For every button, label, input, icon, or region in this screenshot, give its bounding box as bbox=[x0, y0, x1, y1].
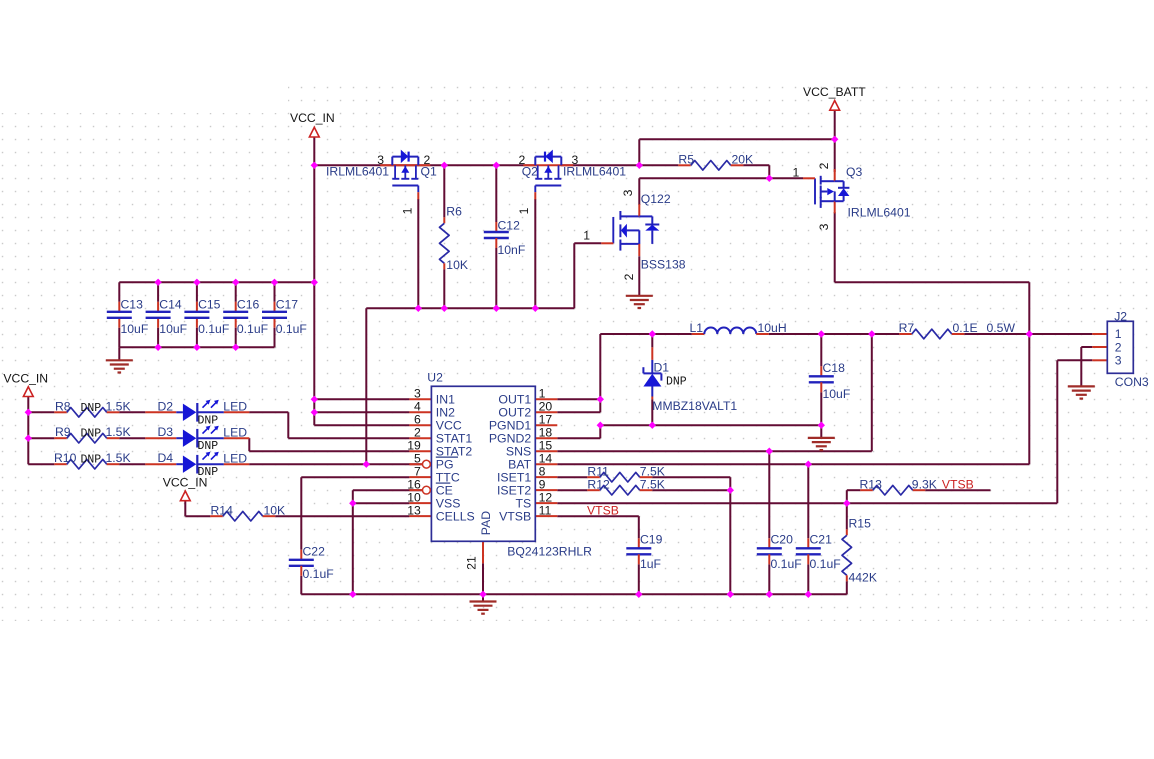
ground Q122 bbox=[626, 296, 653, 308]
junction bbox=[493, 305, 500, 312]
power VCC_IN lower bbox=[163, 476, 208, 501]
wire ISET drop bbox=[729, 477, 731, 594]
svg-text:J2: J2 bbox=[1114, 309, 1127, 323]
power VCC_IN left bbox=[3, 371, 48, 396]
junction bbox=[493, 162, 500, 169]
wire R13 vertical bbox=[846, 490, 848, 529]
wire D3 corner down bbox=[248, 438, 250, 451]
inductor L1 10uH bbox=[692, 328, 769, 335]
svg-text:D4: D4 bbox=[158, 451, 174, 465]
svg-text:9.3K: 9.3K bbox=[912, 477, 937, 491]
R9 labels bbox=[55, 425, 131, 441]
svg-text:ISET1: ISET1 bbox=[497, 471, 531, 485]
junction bbox=[597, 396, 604, 403]
wire C14 top bbox=[157, 282, 159, 302]
wire D1 bottom bbox=[651, 399, 653, 425]
wire Q122 gate horizontal bbox=[574, 242, 601, 244]
capacitor C16 bbox=[223, 297, 268, 336]
wire R10 row left bbox=[28, 463, 54, 465]
wire VCC_IN left rail bbox=[27, 397, 29, 465]
D2 labels bbox=[158, 399, 248, 427]
svg-text:R12: R12 bbox=[587, 477, 610, 491]
svg-text:R5: R5 bbox=[678, 153, 694, 167]
wire L1 to R7 bbox=[769, 333, 900, 335]
svg-text:11: 11 bbox=[539, 504, 552, 518]
svg-text:Q122: Q122 bbox=[641, 192, 671, 206]
wire Q3 source to J2 riser bbox=[835, 281, 1030, 283]
capacitor C13 bbox=[107, 297, 148, 336]
svg-text:ISET2: ISET2 bbox=[497, 484, 531, 498]
J2 pin stubs bbox=[1092, 334, 1107, 360]
resistor R13 bbox=[860, 485, 925, 495]
wire R5 left segment bbox=[639, 164, 678, 166]
svg-text:2: 2 bbox=[1115, 340, 1122, 354]
D1 labels bbox=[652, 361, 737, 413]
svg-text:3: 3 bbox=[572, 153, 579, 167]
junction bbox=[311, 396, 318, 403]
U2 pin numbers left bbox=[407, 387, 421, 518]
wire C13 bottom bbox=[118, 328, 120, 348]
svg-text:13: 13 bbox=[407, 504, 421, 518]
wire C18 ground stem bbox=[820, 425, 822, 438]
wire IN1 bbox=[314, 398, 409, 400]
ground J2 bbox=[1068, 386, 1095, 398]
wire R6 bottom bbox=[443, 269, 445, 308]
junction bbox=[441, 162, 448, 169]
resistor R8 bbox=[54, 408, 119, 418]
wire IN2 bbox=[314, 411, 409, 413]
junction bbox=[649, 330, 656, 337]
resistor R12 bbox=[587, 485, 652, 495]
svg-text:1.5K: 1.5K bbox=[106, 399, 131, 413]
wire TS bbox=[557, 502, 1057, 504]
svg-text:0.1uF: 0.1uF bbox=[810, 557, 841, 571]
svg-text:VSS: VSS bbox=[436, 497, 461, 511]
wire C17 top bbox=[274, 282, 276, 302]
svg-text:VCC: VCC bbox=[436, 419, 462, 433]
junction bbox=[193, 344, 200, 351]
junction bbox=[727, 591, 734, 598]
wire SNS riser bbox=[871, 334, 873, 451]
U2 pin numbers right bbox=[539, 387, 553, 518]
junction bbox=[766, 448, 773, 455]
wire R6 top bbox=[443, 165, 445, 217]
R13 labels bbox=[860, 477, 937, 491]
wire ISET2 left bbox=[557, 489, 587, 491]
wire L1 row left bbox=[600, 333, 692, 335]
U2 PG pin bubble pin 5 bbox=[423, 460, 431, 468]
svg-text:1: 1 bbox=[1115, 327, 1122, 341]
junction bbox=[363, 461, 370, 468]
svg-text:12: 12 bbox=[539, 491, 553, 505]
wire D2 corner down bbox=[287, 412, 289, 438]
wire VCC_BATT down to Q3 drain bbox=[834, 110, 836, 172]
resistor R11 bbox=[587, 472, 652, 482]
wire C13 top bbox=[118, 282, 120, 302]
svg-text:442K: 442K bbox=[849, 571, 877, 585]
capacitor C20 bbox=[757, 532, 802, 571]
U2 pin names right bbox=[489, 393, 532, 524]
junction bbox=[636, 162, 643, 169]
resistor R14 bbox=[210, 511, 275, 521]
svg-text:3: 3 bbox=[621, 189, 635, 196]
L1 labels bbox=[689, 321, 786, 335]
Q3 labels bbox=[793, 162, 911, 230]
capacitor C12 bbox=[484, 219, 525, 258]
svg-text:C16: C16 bbox=[237, 297, 260, 311]
svg-text:PGND2: PGND2 bbox=[489, 432, 532, 446]
svg-text:OUT1: OUT1 bbox=[498, 393, 531, 407]
wire gate bus bbox=[366, 307, 574, 309]
svg-text:3: 3 bbox=[817, 223, 831, 230]
wire pad ground stem bbox=[482, 594, 484, 601]
junction bbox=[271, 279, 278, 286]
capacitor C22 bbox=[289, 544, 334, 581]
wire J2 pin2 horizontal bbox=[1081, 346, 1092, 348]
svg-text:PGND1: PGND1 bbox=[489, 419, 532, 433]
svg-text:10uF: 10uF bbox=[823, 387, 851, 401]
wire J2 riser down bbox=[1028, 282, 1030, 334]
svg-text:19: 19 bbox=[407, 439, 421, 453]
junction bbox=[311, 279, 318, 286]
transistor Q3 IRLML6401 bbox=[25, 136, 1149, 598]
wire Q3 source down bbox=[834, 212, 836, 282]
wire ISET2 right bbox=[652, 489, 730, 491]
svg-text:10uH: 10uH bbox=[758, 321, 787, 335]
svg-text:Q3: Q3 bbox=[846, 165, 862, 179]
wire R9 to D3 bbox=[119, 437, 145, 439]
svg-text:DNP: DNP bbox=[81, 454, 102, 467]
R7 labels bbox=[899, 321, 1016, 335]
wire C16 bottom bbox=[235, 328, 237, 348]
R8 labels bbox=[55, 399, 131, 415]
U2 pin stubs right bbox=[535, 399, 557, 516]
wire PGND2 bbox=[557, 437, 600, 439]
resistor R10 bbox=[54, 459, 119, 469]
junction bbox=[415, 305, 422, 312]
wire R14 from VCC_IN bbox=[184, 501, 186, 517]
svg-text:C19: C19 bbox=[640, 532, 663, 546]
svg-text:C21: C21 bbox=[810, 532, 833, 546]
capacitor C14 bbox=[146, 297, 187, 336]
svg-text:C18: C18 bbox=[823, 361, 846, 375]
svg-text:MMBZ18VALT1: MMBZ18VALT1 bbox=[652, 399, 737, 413]
wire Q1 Q2 drain row bbox=[314, 164, 535, 166]
svg-text:R6: R6 bbox=[446, 204, 462, 218]
R12 labels bbox=[587, 477, 664, 491]
svg-text:10K: 10K bbox=[446, 258, 468, 272]
wire TTC bbox=[301, 476, 409, 478]
U2 CE pin bubble pin 16 bbox=[423, 486, 431, 494]
diode D2 LED bbox=[145, 400, 249, 422]
wire R10 to D4 bbox=[119, 463, 145, 465]
junction bbox=[843, 500, 850, 507]
svg-text:D2: D2 bbox=[158, 399, 174, 413]
svg-text:20K: 20K bbox=[732, 153, 754, 167]
svg-text:0.1uF: 0.1uF bbox=[237, 322, 268, 336]
wire pad drop bbox=[482, 563, 484, 594]
wire BAT riser bbox=[1028, 334, 1030, 464]
svg-text:VCC_IN: VCC_IN bbox=[3, 371, 48, 385]
svg-text:8: 8 bbox=[539, 465, 546, 479]
svg-text:5: 5 bbox=[414, 452, 421, 466]
wire R13 left bbox=[847, 489, 861, 491]
svg-text:3: 3 bbox=[377, 153, 384, 167]
power VCC_IN top bbox=[290, 111, 335, 137]
svg-text:1.5K: 1.5K bbox=[106, 451, 131, 465]
wire C18 top bbox=[820, 334, 822, 366]
junction bbox=[311, 162, 318, 169]
svg-text:VTSB: VTSB bbox=[499, 510, 531, 524]
junction bbox=[818, 330, 825, 337]
svg-text:0.1uF: 0.1uF bbox=[771, 557, 802, 571]
svg-text:VCC_IN: VCC_IN bbox=[290, 111, 335, 125]
wire CE drop bbox=[352, 490, 354, 594]
wire C21 bottom bbox=[807, 564, 809, 594]
junction bbox=[479, 591, 486, 598]
wire STAT1 from D2 bbox=[288, 437, 409, 439]
svg-text:CELLS: CELLS bbox=[436, 510, 475, 524]
wire C20 top bbox=[768, 451, 770, 538]
svg-text:10nF: 10nF bbox=[498, 243, 526, 257]
wire R8 to D2 bbox=[119, 411, 145, 413]
wire VTSB pin11 bbox=[557, 515, 639, 517]
svg-text:DNP: DNP bbox=[81, 428, 102, 441]
op-amp U2 body BQ24123RHLR bbox=[431, 386, 535, 541]
junction bbox=[154, 279, 161, 286]
svg-text:17: 17 bbox=[539, 413, 553, 427]
svg-text:3: 3 bbox=[414, 387, 421, 401]
junction bbox=[193, 279, 200, 286]
wire D4 to PG bbox=[249, 463, 423, 465]
svg-text:DNP: DNP bbox=[198, 414, 219, 427]
svg-text:6: 6 bbox=[414, 413, 421, 427]
transistor Q2 IRLML6401 bbox=[523, 150, 573, 200]
wire C14 bottom bbox=[157, 328, 159, 348]
wire SNS bbox=[557, 450, 872, 452]
svg-text:2: 2 bbox=[817, 162, 831, 169]
svg-text:7.5K: 7.5K bbox=[640, 464, 665, 478]
wire R13 net label tail bbox=[925, 489, 990, 491]
svg-text:R7: R7 bbox=[899, 321, 915, 335]
svg-text:2: 2 bbox=[519, 153, 526, 167]
D3 labels bbox=[158, 425, 248, 453]
junction bbox=[649, 422, 656, 429]
svg-text:4: 4 bbox=[414, 400, 421, 414]
diode D3 LED bbox=[145, 426, 249, 448]
wire ISET1 left bbox=[557, 476, 587, 478]
R11 labels bbox=[587, 464, 664, 478]
junction bbox=[766, 175, 773, 182]
U2 pin names left bbox=[436, 393, 475, 524]
junction bbox=[818, 422, 825, 429]
svg-text:PAD: PAD bbox=[479, 511, 493, 535]
resistor R15 bbox=[842, 529, 852, 581]
ground cap bank bbox=[106, 360, 133, 372]
wire R9 row left bbox=[28, 437, 54, 439]
svg-text:15: 15 bbox=[539, 439, 553, 453]
svg-text:0.5W: 0.5W bbox=[987, 321, 1016, 335]
resistor R5 bbox=[678, 161, 743, 171]
capacitor C19 bbox=[626, 532, 662, 571]
svg-text:1: 1 bbox=[793, 165, 800, 179]
svg-text:TS: TS bbox=[515, 497, 531, 511]
svg-text:C14: C14 bbox=[159, 297, 182, 311]
wire cap bank ground stem bbox=[118, 347, 120, 360]
wire STAT2 from D3 bbox=[249, 450, 409, 452]
svg-text:R9: R9 bbox=[55, 425, 71, 439]
wire R14 left bbox=[185, 515, 210, 517]
junction bbox=[441, 305, 448, 312]
svg-text:LED: LED bbox=[223, 425, 247, 439]
wire R5 drop to gate row bbox=[768, 165, 770, 178]
Q1 labels bbox=[326, 153, 437, 215]
svg-text:21: 21 bbox=[464, 556, 478, 570]
wire C19 bottom bbox=[638, 564, 640, 594]
svg-text:VTSB: VTSB bbox=[942, 477, 974, 491]
resistor R7 bbox=[899, 329, 964, 339]
wire VCC bbox=[314, 424, 409, 426]
diode D1 zener MMBZ18VALT1 bbox=[643, 347, 661, 399]
svg-text:PG: PG bbox=[436, 458, 454, 472]
connector J2 CON3 bbox=[1107, 309, 1149, 389]
svg-text:20: 20 bbox=[539, 400, 553, 414]
svg-text:IN1: IN1 bbox=[436, 393, 455, 407]
wire C19 top bbox=[638, 516, 640, 538]
svg-text:2: 2 bbox=[414, 426, 421, 440]
wire cap bank bottom bus bbox=[119, 346, 274, 348]
power VCC_BATT bbox=[803, 85, 866, 110]
svg-text:1: 1 bbox=[401, 207, 415, 214]
junction bbox=[805, 461, 812, 468]
junction bbox=[232, 279, 239, 286]
svg-text:IN2: IN2 bbox=[436, 406, 455, 420]
wire OUT riser bbox=[599, 334, 601, 412]
svg-text:1: 1 bbox=[539, 387, 546, 401]
svg-text:10uF: 10uF bbox=[159, 322, 187, 336]
svg-text:SNS: SNS bbox=[506, 445, 531, 459]
svg-text:CON3: CON3 bbox=[1115, 375, 1149, 389]
svg-text:1.5K: 1.5K bbox=[106, 425, 131, 439]
transistor Q1 IRLML6401 bbox=[380, 150, 430, 200]
junction bbox=[349, 500, 356, 507]
wire Q122 gate riser bbox=[573, 243, 575, 308]
svg-text:R15: R15 bbox=[849, 516, 872, 530]
wire C21 top bbox=[807, 464, 809, 538]
svg-text:2: 2 bbox=[424, 153, 431, 167]
wire cap bank top bus bbox=[119, 281, 314, 283]
svg-text:CE: CE bbox=[436, 484, 453, 498]
wire C20 bottom bbox=[768, 564, 770, 594]
svg-text:1: 1 bbox=[517, 207, 531, 214]
ground C18 bbox=[808, 438, 835, 450]
wire R5 right segment bbox=[743, 164, 769, 166]
svg-text:OUT2: OUT2 bbox=[498, 406, 531, 420]
Q122 labels bbox=[583, 189, 686, 280]
wire CE bbox=[353, 489, 423, 491]
svg-text:LED: LED bbox=[223, 400, 247, 414]
svg-text:C20: C20 bbox=[771, 532, 794, 546]
wire VCC_IN to Q1 row bbox=[313, 137, 315, 166]
svg-text:DNP: DNP bbox=[81, 402, 102, 415]
svg-text:DNP: DNP bbox=[666, 376, 687, 389]
R14 labels bbox=[211, 504, 286, 518]
capacitor C18 bbox=[809, 361, 850, 401]
wire C15 top bbox=[196, 282, 198, 302]
D4 labels bbox=[158, 451, 248, 479]
wire Q2 source to riser bbox=[561, 164, 639, 166]
junction bbox=[831, 136, 838, 143]
wire C12 top bbox=[495, 165, 497, 222]
junction bbox=[154, 344, 161, 351]
wire J2 pin2 ground drop bbox=[1080, 347, 1082, 386]
svg-text:1: 1 bbox=[583, 228, 590, 242]
resistor R6 bbox=[440, 217, 450, 269]
wire TTC drop to C22 bbox=[300, 477, 302, 550]
svg-text:16: 16 bbox=[407, 478, 421, 492]
junction bbox=[766, 591, 773, 598]
svg-text:BAT: BAT bbox=[508, 458, 531, 472]
wire VCC_IN rail down to VCC pin corner bbox=[313, 165, 315, 425]
wire Q2 gate drop bbox=[534, 199, 536, 308]
U2 pad stub pin 21 bbox=[482, 541, 484, 563]
svg-text:STAT1: STAT1 bbox=[436, 432, 473, 446]
transistor Q122 BSS138 bbox=[25, 136, 1149, 598]
wire R7 to J2 bbox=[964, 333, 1092, 335]
svg-text:0.1uF: 0.1uF bbox=[276, 322, 307, 336]
wire Q122 source to ground bbox=[638, 256, 640, 296]
svg-text:0.1E: 0.1E bbox=[953, 321, 978, 335]
junction bbox=[635, 591, 642, 598]
wire VCC_BATT horizontal bbox=[639, 138, 834, 140]
wire Q1 gate drop bbox=[417, 199, 419, 308]
wire R15 bottom bbox=[846, 581, 848, 594]
wire C15 bottom bbox=[196, 328, 198, 348]
capacitor C15 bbox=[184, 297, 229, 336]
wire R8 row left bbox=[28, 411, 54, 413]
wire OUT2 bbox=[557, 411, 600, 413]
svg-text:18: 18 bbox=[539, 426, 553, 440]
svg-text:U2: U2 bbox=[427, 370, 443, 384]
svg-text:VTSB: VTSB bbox=[587, 503, 619, 517]
diode D4 LED bbox=[145, 452, 249, 474]
svg-text:1uF: 1uF bbox=[640, 557, 661, 571]
wire PG vertical bbox=[365, 308, 367, 464]
svg-text:14: 14 bbox=[539, 452, 553, 466]
wire C22 bottom bbox=[300, 576, 302, 595]
svg-text:2: 2 bbox=[622, 273, 636, 280]
capacitor C17 bbox=[262, 297, 307, 336]
svg-text:R8: R8 bbox=[55, 399, 71, 413]
wire PGND riser bbox=[599, 425, 601, 438]
wire VSS bbox=[353, 502, 410, 504]
svg-text:IRLML6401: IRLML6401 bbox=[848, 206, 911, 220]
svg-text:R13: R13 bbox=[860, 477, 883, 491]
svg-text:VCC_BATT: VCC_BATT bbox=[803, 85, 866, 99]
wire bottom bus bbox=[301, 593, 847, 595]
wire D1 top bbox=[651, 334, 653, 347]
wire C12 bottom bbox=[495, 248, 497, 308]
svg-text:9: 9 bbox=[539, 478, 546, 492]
wire Q122 drain riser bbox=[638, 178, 640, 205]
wire CELLS from R14 bbox=[275, 515, 409, 517]
R5 labels bbox=[678, 153, 753, 167]
junction bbox=[25, 435, 32, 442]
svg-text:0.1uF: 0.1uF bbox=[303, 567, 334, 581]
svg-text:7.5K: 7.5K bbox=[640, 477, 665, 491]
svg-text:3: 3 bbox=[1115, 354, 1122, 368]
R10 labels bbox=[54, 451, 131, 467]
